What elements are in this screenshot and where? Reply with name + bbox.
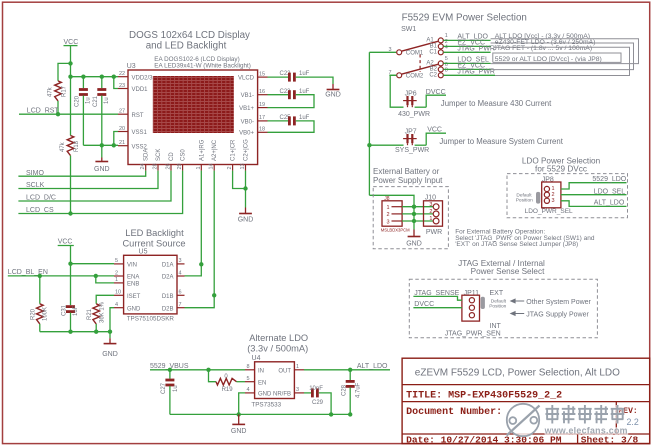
svg-text:4: 4 bbox=[247, 387, 250, 393]
svg-text:Sheet: 3/8: Sheet: 3/8 bbox=[581, 434, 639, 445]
svg-text:SCLK: SCLK bbox=[26, 182, 45, 189]
svg-text:JP7: JP7 bbox=[405, 128, 417, 135]
svg-text:2: 2 bbox=[227, 166, 233, 169]
svg-text:2.2: 2.2 bbox=[627, 417, 639, 427]
svg-text:14: 14 bbox=[209, 163, 215, 169]
svg-text:External Battery or: External Battery or bbox=[373, 167, 440, 176]
svg-text:0: 0 bbox=[224, 374, 228, 380]
svg-text:8: 8 bbox=[247, 364, 250, 370]
svg-text:19: 19 bbox=[259, 102, 265, 108]
svg-text:VB1-: VB1- bbox=[241, 93, 254, 99]
svg-text:GND: GND bbox=[258, 392, 272, 398]
svg-text:5: 5 bbox=[247, 376, 250, 382]
svg-text:JTAG_PWR: JTAG_PWR bbox=[457, 69, 495, 76]
svg-text:24: 24 bbox=[140, 163, 146, 169]
svg-text:VCC: VCC bbox=[427, 126, 442, 133]
svg-text:Position: Position bbox=[489, 304, 506, 310]
svg-text:LDO_PWR_SEL: LDO_PWR_SEL bbox=[525, 208, 573, 215]
svg-text:GND: GND bbox=[94, 166, 110, 173]
svg-text:MSLBDX3PCM: MSLBDX3PCM bbox=[381, 228, 410, 233]
svg-text:LCD_CS: LCD_CS bbox=[26, 207, 54, 214]
svg-text:1: 1 bbox=[296, 364, 299, 370]
svg-text:4: 4 bbox=[179, 270, 182, 276]
svg-text:DOGS 102x64 LCD Display: DOGS 102x64 LCD Display bbox=[129, 30, 250, 41]
svg-text:47k: 47k bbox=[48, 86, 54, 97]
svg-text:ISET: ISET bbox=[127, 294, 141, 300]
svg-text:1: 1 bbox=[196, 166, 202, 169]
svg-text:R18: R18 bbox=[74, 140, 80, 152]
svg-text:R17: R17 bbox=[62, 85, 68, 97]
svg-text:VB0+: VB0+ bbox=[239, 131, 254, 137]
svg-text:A1+|RG: A1+|RG bbox=[199, 139, 205, 161]
svg-text:Default: Default bbox=[491, 298, 507, 304]
svg-text:27: 27 bbox=[119, 109, 125, 115]
svg-text:C27: C27 bbox=[161, 382, 167, 394]
svg-text:GND: GND bbox=[127, 306, 141, 312]
svg-text:eZEVM F5529 LCD, Power Selecti: eZEVM F5529 LCD, Power Selection, Alt LD… bbox=[415, 367, 620, 378]
svg-text:VB1+: VB1+ bbox=[239, 106, 254, 112]
svg-text:(3.3v / 500mA): (3.3v / 500mA) bbox=[247, 344, 308, 354]
svg-text:JTAG_PWR_SEN: JTAG_PWR_SEN bbox=[445, 330, 501, 337]
svg-text:Date: 10/27/2014 3:30:06 PM: Date: 10/27/2014 3:30:06 PM bbox=[406, 434, 562, 445]
svg-text:3: 3 bbox=[552, 198, 555, 204]
svg-text:C2+|CG: C2+|CG bbox=[244, 139, 250, 161]
svg-text:www.elecfans.com: www.elecfans.com bbox=[544, 425, 628, 435]
svg-text:2: 2 bbox=[387, 212, 390, 218]
svg-text:U3: U3 bbox=[127, 63, 136, 70]
svg-text:Position: Position bbox=[516, 198, 533, 204]
svg-text:CS0: CS0 bbox=[181, 149, 187, 161]
svg-text:D1A: D1A bbox=[162, 263, 174, 269]
svg-text:C1+|CR: C1+|CR bbox=[231, 139, 237, 161]
svg-text:R21: R21 bbox=[87, 308, 93, 320]
svg-text:Jumper to Measure System Curre: Jumper to Measure System Current bbox=[439, 137, 563, 146]
svg-text:4.7uF: 4.7uF bbox=[356, 382, 362, 398]
svg-text:10: 10 bbox=[115, 290, 121, 296]
svg-text:JP11: JP11 bbox=[464, 290, 480, 297]
svg-text:LCD_D/C: LCD_D/C bbox=[26, 194, 56, 201]
svg-text:SW1: SW1 bbox=[401, 26, 416, 33]
svg-text:4: 4 bbox=[445, 45, 448, 51]
svg-text:C31: C31 bbox=[62, 304, 68, 316]
svg-text:17: 17 bbox=[259, 115, 265, 121]
svg-text:1uF: 1uF bbox=[73, 305, 79, 316]
svg-text:EXT: EXT bbox=[490, 290, 504, 297]
svg-text:F5529 EVM Power Selection: F5529 EVM Power Selection bbox=[402, 13, 527, 24]
svg-text:ENB: ENB bbox=[127, 282, 139, 288]
svg-text:VB0-: VB0- bbox=[241, 119, 254, 125]
svg-text:DVCC: DVCC bbox=[426, 89, 446, 96]
svg-text:100K: 100K bbox=[43, 307, 49, 321]
svg-text:Power Supply Input: Power Supply Input bbox=[373, 176, 443, 185]
svg-text:GND: GND bbox=[231, 428, 247, 435]
svg-text:47k: 47k bbox=[60, 141, 66, 152]
svg-text:JTAG Supply Power: JTAG Supply Power bbox=[526, 312, 589, 319]
svg-text:INT: INT bbox=[490, 323, 502, 330]
svg-text:D2A: D2A bbox=[162, 275, 174, 281]
svg-text:3: 3 bbox=[179, 258, 182, 264]
svg-text:A1: A1 bbox=[426, 37, 434, 43]
svg-text:VCC: VCC bbox=[58, 239, 73, 246]
svg-text:RST: RST bbox=[132, 113, 144, 119]
svg-text:VSS1: VSS1 bbox=[132, 130, 148, 136]
svg-text:VDD2/3: VDD2/3 bbox=[132, 75, 154, 81]
svg-text:20: 20 bbox=[119, 126, 125, 132]
svg-text:C1: C1 bbox=[429, 49, 437, 55]
svg-text:Jumper to Measure 430 Current: Jumper to Measure 430 Current bbox=[441, 99, 552, 108]
svg-text:SCK: SCK bbox=[156, 149, 162, 161]
svg-text:GND: GND bbox=[102, 351, 118, 358]
svg-text:VDD1: VDD1 bbox=[132, 87, 149, 93]
svg-text:JTAG_PWR: JTAG_PWR bbox=[457, 46, 495, 53]
svg-text:36K 1%: 36K 1% bbox=[100, 301, 106, 323]
svg-text:VIN: VIN bbox=[127, 263, 137, 269]
svg-text:29: 29 bbox=[177, 163, 183, 169]
svg-text:3: 3 bbox=[387, 219, 390, 225]
svg-text:C20: C20 bbox=[75, 95, 81, 107]
svg-text:430_PWR: 430_PWR bbox=[398, 111, 430, 118]
svg-text:1uF: 1uF bbox=[299, 115, 310, 121]
svg-text:C28: C28 bbox=[342, 384, 348, 396]
svg-text:JTAG FET - (1.8v ... 5v / 100m: JTAG FET - (1.8v ... 5v / 100mA) bbox=[493, 45, 592, 52]
svg-text:7: 7 bbox=[179, 302, 182, 308]
svg-text:18: 18 bbox=[259, 127, 265, 133]
svg-text:Alternate LDO: Alternate LDO bbox=[249, 333, 308, 343]
svg-text:16: 16 bbox=[259, 89, 265, 95]
svg-text:U5: U5 bbox=[139, 249, 148, 256]
svg-text:C29: C29 bbox=[312, 400, 324, 406]
svg-text:C21: C21 bbox=[93, 95, 99, 107]
svg-text:GND: GND bbox=[406, 240, 422, 247]
svg-text:COM1: COM1 bbox=[406, 51, 424, 57]
svg-text:Power Sense Select: Power Sense Select bbox=[471, 267, 545, 276]
svg-text:2: 2 bbox=[429, 209, 432, 215]
svg-text:ALT_LDO: ALT_LDO bbox=[594, 200, 625, 207]
svg-text:1u: 1u bbox=[173, 385, 179, 392]
svg-text:SDA: SDA bbox=[144, 149, 150, 161]
svg-text:10nF: 10nF bbox=[309, 386, 323, 392]
svg-text:3: 3 bbox=[429, 202, 432, 208]
svg-text:IN: IN bbox=[258, 368, 264, 374]
svg-text:VLCD: VLCD bbox=[238, 76, 255, 82]
svg-text:23: 23 bbox=[119, 83, 125, 89]
svg-text:TPS75105DSKR: TPS75105DSKR bbox=[127, 316, 175, 323]
svg-text:4: 4 bbox=[115, 302, 118, 308]
svg-text:ENA: ENA bbox=[127, 275, 139, 281]
svg-text:3: 3 bbox=[296, 387, 299, 393]
svg-text:NR/FB: NR/FB bbox=[273, 392, 291, 398]
svg-text:8: 8 bbox=[445, 68, 448, 74]
svg-text:SYS_PWR: SYS_PWR bbox=[395, 147, 429, 154]
svg-text:R19: R19 bbox=[222, 387, 234, 393]
svg-text:DVCC: DVCC bbox=[414, 301, 434, 308]
svg-text:15: 15 bbox=[259, 71, 265, 77]
svg-text:5529_LDO: 5529_LDO bbox=[592, 176, 626, 183]
svg-text:1uF: 1uF bbox=[299, 89, 310, 95]
svg-text:1u: 1u bbox=[104, 97, 110, 104]
svg-text:28: 28 bbox=[153, 163, 159, 169]
svg-text:PWR: PWR bbox=[426, 229, 442, 236]
svg-text:TPS73533: TPS73533 bbox=[251, 402, 281, 409]
svg-text:C2: C2 bbox=[429, 72, 437, 78]
svg-text:1: 1 bbox=[387, 205, 390, 211]
svg-text:GND: GND bbox=[238, 217, 254, 224]
svg-text:1: 1 bbox=[429, 216, 432, 222]
svg-text:CD: CD bbox=[169, 152, 175, 161]
svg-text:22: 22 bbox=[119, 71, 125, 77]
svg-text:and LED Backlight: and LED Backlight bbox=[146, 41, 227, 52]
svg-text:A2: A2 bbox=[426, 60, 434, 66]
svg-text:for 5529 DVcc: for 5529 DVcc bbox=[535, 164, 587, 173]
svg-text:26: 26 bbox=[166, 163, 172, 169]
svg-text:Other System Power: Other System Power bbox=[526, 299, 591, 306]
svg-text:OUT: OUT bbox=[278, 368, 291, 374]
svg-text:6: 6 bbox=[179, 290, 182, 296]
svg-text:5529 or ALT LDO [DVcc] - (via: 5529 or ALT LDO [DVcc] - (via JP8) bbox=[495, 56, 602, 63]
svg-text:JP6: JP6 bbox=[405, 90, 417, 97]
svg-text:5: 5 bbox=[115, 258, 118, 264]
svg-text:Default: Default bbox=[516, 192, 532, 198]
svg-text:R20: R20 bbox=[31, 308, 37, 320]
svg-text:EN: EN bbox=[258, 380, 266, 386]
svg-text:Current Source: Current Source bbox=[122, 239, 185, 249]
svg-text:A2+|NC: A2+|NC bbox=[212, 139, 218, 161]
svg-text:TITLE: MSP-EXP430F5529_2_2: TITLE: MSP-EXP430F5529_2_2 bbox=[406, 391, 562, 402]
svg-text:2: 2 bbox=[115, 270, 118, 276]
svg-text:LDO_SEL: LDO_SEL bbox=[594, 188, 626, 195]
svg-text:COM2: COM2 bbox=[406, 74, 424, 80]
svg-text:GND: GND bbox=[325, 92, 341, 99]
svg-text:D1B: D1B bbox=[162, 294, 174, 300]
svg-text:Document Number:: Document Number: bbox=[406, 406, 502, 418]
svg-text:D2B: D2B bbox=[162, 306, 174, 312]
svg-text:'EXT' on JTAG Sense Select Jum: 'EXT' on JTAG Sense Select Jumper (JP8) bbox=[455, 241, 578, 248]
svg-text:13: 13 bbox=[240, 163, 246, 169]
svg-text:1u: 1u bbox=[86, 97, 92, 104]
svg-text:21: 21 bbox=[119, 140, 125, 146]
svg-text:ALT_LDO: ALT_LDO bbox=[357, 363, 388, 370]
svg-text:1: 1 bbox=[115, 277, 118, 283]
svg-text:2: 2 bbox=[552, 192, 555, 198]
svg-text:1uF: 1uF bbox=[299, 71, 310, 77]
svg-text:LED Backlight: LED Backlight bbox=[125, 228, 184, 238]
svg-text:U4: U4 bbox=[252, 355, 261, 362]
svg-text:EA LED39x41-W (White Backlight: EA LED39x41-W (White Backlight) bbox=[154, 63, 251, 70]
